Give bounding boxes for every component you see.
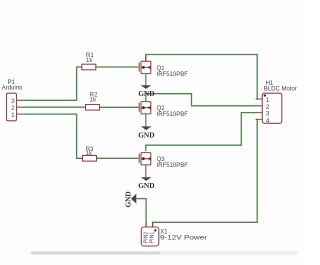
transistor Q3 — [139, 153, 188, 178]
connector X1 — [141, 222, 207, 246]
resistor R3 — [83, 147, 97, 161]
transistor Q2 — [139, 102, 188, 127]
ground under Q1 — [138, 85, 154, 98]
svg-text:BLDC Motor: BLDC Motor — [264, 87, 297, 93]
svg-text:IRF510PBF: IRF510PBF — [157, 72, 189, 78]
wire X1 PIN2 to GND left — [136, 199, 146, 227]
wire Q3 drain to H1 pin3 — [146, 113, 256, 152]
ground left of X1 — [123, 191, 136, 207]
svg-text:1k: 1k — [86, 58, 93, 64]
svg-text:PIN2: PIN2 — [143, 231, 149, 243]
svg-text:GND: GND — [138, 89, 154, 98]
wire H1 pin4 to X1 PIN1 — [153, 119, 258, 227]
svg-text:1k: 1k — [90, 98, 97, 104]
wire R2 to Q2 gate — [100, 106, 139, 108]
wire net row1 P1 pin3 to R1 — [24, 67, 82, 100]
wire R3 to Q3 gate — [97, 157, 139, 159]
svg-text:GND: GND — [123, 191, 132, 207]
svg-text:4: 4 — [266, 117, 270, 124]
wire R1 to Q1 gate — [96, 66, 139, 68]
svg-text:1: 1 — [11, 112, 15, 119]
svg-text:Arduino: Arduino — [2, 86, 23, 92]
connector H1 — [256, 81, 297, 124]
ground under Q3 — [138, 177, 154, 190]
svg-text:IRF510PBF: IRF510PBF — [157, 163, 189, 169]
svg-text:PIN1: PIN1 — [150, 231, 156, 243]
connector P1 — [2, 80, 24, 121]
svg-text:IRF510PBF: IRF510PBF — [157, 112, 189, 118]
wire net row2 P1 pin2 to R2 — [24, 106, 86, 108]
svg-text:GND: GND — [138, 131, 154, 140]
wire Q2 drain to H1 pin2 — [146, 94, 256, 106]
svg-text:9-12V Power: 9-12V Power — [160, 235, 207, 241]
wire net row3 P1 pin1 to R3 — [24, 114, 83, 158]
wire Q1 drain to H1 pin1 — [146, 55, 257, 100]
resistor R2 — [86, 92, 100, 110]
ground under Q2 — [138, 126, 154, 139]
transistor Q1 — [139, 55, 188, 86]
scrollbar strip bottom — [31, 251, 298, 254]
resistor R1 — [82, 53, 96, 70]
svg-text:GND: GND — [138, 181, 154, 190]
